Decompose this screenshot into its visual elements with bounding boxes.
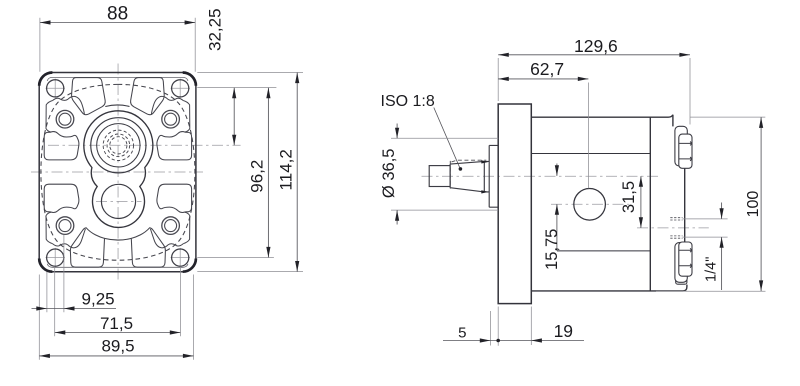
svg-text:19: 19 — [554, 321, 573, 341]
svg-text:31,5: 31,5 — [620, 181, 638, 213]
svg-text:114,2: 114,2 — [277, 149, 296, 190]
svg-text:71,5: 71,5 — [100, 314, 133, 333]
svg-text:ISO 1:8: ISO 1:8 — [381, 93, 435, 110]
svg-text:129,6: 129,6 — [574, 36, 618, 56]
svg-text:62,7: 62,7 — [530, 59, 564, 79]
svg-text:9,25: 9,25 — [82, 290, 115, 309]
svg-text:32,25: 32,25 — [206, 8, 225, 51]
svg-text:96,2: 96,2 — [247, 160, 266, 193]
svg-text:100: 100 — [745, 191, 762, 218]
svg-text:5: 5 — [458, 325, 466, 342]
svg-text:15,75: 15,75 — [543, 229, 561, 270]
svg-text:Ø 36,5: Ø 36,5 — [380, 149, 398, 199]
svg-text:88: 88 — [107, 4, 128, 25]
svg-text:89,5: 89,5 — [101, 337, 134, 356]
svg-text:1/4": 1/4" — [704, 257, 720, 282]
